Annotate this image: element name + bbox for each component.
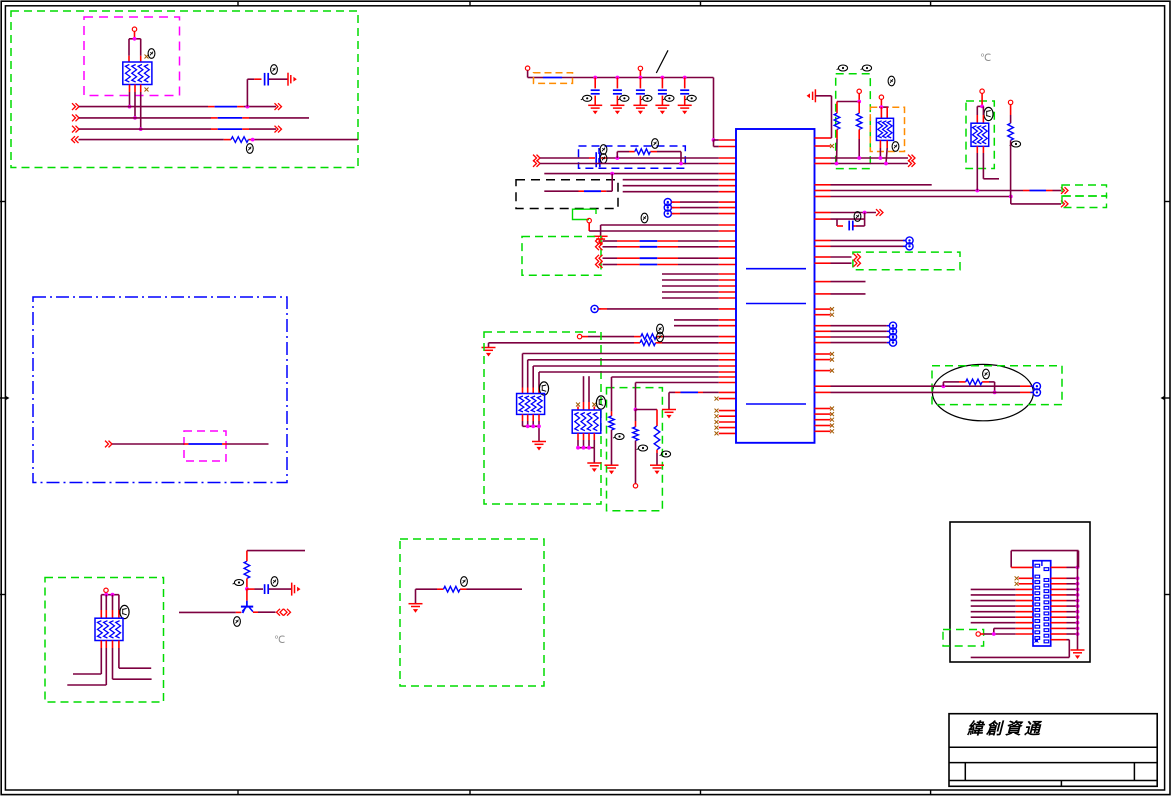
capacitor C3	[591, 78, 600, 106]
port chevron row163	[533, 160, 540, 167]
green dashed box bottom-left	[45, 578, 164, 703]
frame arrow left mid	[0, 396, 10, 400]
resistor R13	[966, 379, 982, 385]
wire row 281.6 right	[815, 281, 866, 283]
port chevron wire3 left	[72, 126, 79, 133]
junction dot RP5 b	[111, 593, 115, 597]
nc pin J1 row3	[1015, 582, 1033, 586]
wire row 240.5 right	[815, 240, 906, 242]
terminal circle row231	[587, 218, 591, 222]
ground row392	[662, 410, 676, 419]
junction dot RP4	[880, 105, 884, 109]
port chevron wire1 left	[72, 103, 79, 110]
junction dot tee	[857, 100, 861, 104]
nc pin right 354	[815, 352, 835, 356]
wire node to Q1	[246, 589, 248, 601]
junction dot bus cap 3	[639, 76, 643, 80]
wire row 179.7	[623, 179, 736, 181]
power symbol right C1	[288, 73, 297, 86]
resistor R4 parallel	[617, 152, 681, 164]
junction dot bus cap 4	[661, 76, 665, 80]
wire R9 mid	[635, 410, 637, 427]
wire J1 bottom row	[971, 640, 1070, 658]
resistor pack RP1	[123, 62, 152, 85]
frame tick top 470	[469, 1, 471, 6]
power symbol right C2	[292, 583, 301, 596]
wire R7 ground	[611, 430, 613, 465]
label C5	[641, 95, 652, 101]
wire row 190.5 right	[815, 190, 1062, 192]
wire black box net	[544, 174, 612, 192]
resistor R5	[641, 334, 657, 340]
frame tick right upper	[1165, 201, 1170, 203]
wire row 274	[662, 273, 736, 275]
port chevron wire4 left	[72, 136, 79, 143]
green dashed box B6	[932, 366, 1062, 405]
green dashed box out2	[1062, 196, 1107, 208]
green dashed box right net	[836, 74, 871, 169]
nc pin left 416.2	[715, 414, 737, 418]
label RP5	[120, 605, 129, 618]
wire row 225	[601, 225, 736, 236]
wire circle to bus	[589, 223, 600, 231]
frame tick top 238	[237, 1, 239, 6]
green dashed box B5	[400, 539, 544, 686]
nc pin J1 row2	[1015, 576, 1033, 580]
terminal circle RP4	[879, 95, 883, 99]
label C8a	[600, 145, 607, 155]
nc pin right 408.5	[815, 407, 835, 411]
resistor R3 B5	[444, 586, 461, 592]
wire RP1 bottom leg a	[129, 85, 131, 107]
label C6	[663, 95, 674, 101]
resistor pack RP6	[971, 123, 989, 146]
ground B5	[409, 604, 423, 613]
ground C5	[633, 105, 647, 114]
label C1	[271, 65, 278, 75]
junction dot leg b	[133, 116, 137, 120]
wire circle stub	[639, 71, 641, 78]
wire bundle row 382.5	[636, 383, 737, 410]
nc pin right 309	[815, 307, 835, 311]
resistor R1 wire4	[231, 137, 248, 143]
label R7	[613, 434, 624, 440]
wire RP5 top tee	[101, 594, 119, 596]
wire RP1 bottom leg b	[134, 85, 136, 118]
ground C6	[655, 105, 669, 114]
wire row 241	[603, 240, 737, 242]
wire row 263.2 right	[815, 260, 861, 267]
terminal circle R10R11	[857, 89, 861, 93]
nc pin right 419.7	[815, 418, 835, 422]
wire RP6 out leg2	[983, 146, 999, 179]
terminal circle RP6	[980, 89, 984, 93]
label R8	[660, 451, 671, 457]
wire row 343 ground	[489, 343, 737, 348]
label C7	[685, 95, 696, 101]
temperature gray text 2	[980, 53, 991, 64]
terminal circle RP1 top	[132, 27, 136, 31]
pin1 mark J1	[1034, 639, 1038, 643]
wire row 138	[815, 96, 832, 138]
junction dot wire4	[251, 138, 255, 142]
wire row 196 jog	[1011, 197, 1061, 204]
port chevron row 246.8	[596, 243, 603, 250]
nc pin left 398.6	[715, 397, 737, 401]
label Q1	[234, 617, 241, 627]
wire row 185.7	[623, 185, 736, 187]
wire Q1 emitter out	[253, 611, 276, 613]
wire RP5 out leg1	[73, 641, 101, 675]
wire J1 left row 589.4	[971, 588, 1033, 590]
junction dot RP1 tee	[133, 37, 137, 41]
junction dot RP5 a	[104, 593, 108, 597]
junction dots row163 right	[835, 162, 888, 166]
label R9	[637, 445, 648, 451]
wire socket row 325.7 right	[815, 322, 897, 329]
nc pin right 414.1	[815, 412, 835, 416]
wire J1 right bus	[1078, 551, 1079, 650]
ground C3	[588, 105, 602, 114]
label row 213 net	[641, 213, 648, 223]
frame tick left lower	[0, 594, 5, 596]
resistor R10	[834, 102, 840, 164]
wire RP1 top leg b	[140, 39, 142, 62]
socket pin row 202.1	[664, 199, 736, 206]
socket row 240.5	[903, 237, 913, 244]
label RP2	[539, 382, 548, 395]
label R13	[983, 369, 990, 379]
socket pin row 207.6	[664, 204, 736, 211]
nc pin left 433.4	[715, 431, 737, 435]
magenta dashed box RP1	[84, 17, 180, 96]
port chevron mid-left wire	[105, 441, 112, 448]
diagonal annotation line	[656, 50, 668, 73]
wire row 158 right	[815, 155, 916, 162]
label RP6	[984, 107, 993, 120]
label R2	[233, 580, 244, 586]
black dashed box	[516, 180, 618, 209]
junction dot R13	[993, 391, 997, 395]
nc pin right 425.5	[815, 424, 835, 428]
junction dot J1	[992, 632, 996, 636]
label C4	[618, 95, 629, 101]
socket pin row 309	[591, 305, 736, 312]
wire R10 R11 tee	[837, 94, 859, 102]
title text company name	[966, 720, 1043, 738]
port chevrons Q1 out	[277, 609, 291, 616]
wire RP5 out leg3	[113, 641, 152, 680]
wires J1 right rows	[1051, 566, 1080, 636]
junction dots RP3	[576, 446, 591, 450]
resistor R2 collector	[244, 561, 250, 578]
wire RP5 top leg4	[118, 595, 120, 619]
ground R8	[650, 465, 664, 474]
label RP4	[892, 142, 899, 152]
wire R12 bottom	[1010, 140, 1012, 196]
wire mid-left	[112, 443, 269, 445]
ground R7	[605, 465, 619, 474]
svg-text:℃: ℃	[274, 635, 285, 646]
wire row 320	[674, 319, 736, 321]
socket row 392	[1030, 389, 1040, 396]
wire row 258.2	[603, 257, 737, 259]
label C2	[271, 577, 278, 587]
frame tick right lower	[1165, 594, 1170, 596]
wire RP6 out leg1	[976, 146, 978, 190]
IC U1 body	[736, 129, 815, 443]
label C8b	[600, 154, 607, 164]
wire row 196.5 right	[815, 196, 1011, 198]
resistor R8 B3	[654, 426, 660, 465]
wire RP6 tee	[977, 93, 983, 106]
resistor pack RP2	[517, 394, 545, 415]
connector J1 body	[1033, 561, 1051, 646]
connector J1 pin notches	[1035, 564, 1049, 643]
black box connector	[950, 522, 1090, 662]
ground RP2	[532, 442, 546, 451]
wire R12 top	[1010, 105, 1012, 124]
label C9	[854, 212, 861, 222]
wire bundle row 353.5	[523, 354, 737, 394]
wire J1 left row 622.7	[971, 622, 1033, 624]
wire row 219.1 right	[815, 213, 865, 227]
label R3	[461, 577, 468, 587]
capacitor C7	[680, 78, 689, 106]
junction dot bus cap 5	[683, 76, 687, 80]
svg-text:緯創資通: 緯創資通	[966, 720, 1043, 738]
green dashed box B3	[607, 388, 663, 511]
green dashed box B2	[484, 332, 601, 504]
wire Q1 base	[179, 611, 241, 613]
wire row 298	[662, 297, 736, 299]
x marks RP3	[576, 403, 596, 407]
frame tick bottom 470	[469, 790, 471, 795]
wire row 392.4 right	[815, 391, 1034, 393]
wire 4 top-left	[79, 139, 359, 141]
green dashed box RP6	[966, 101, 994, 169]
port chevron row190	[1061, 187, 1068, 194]
capacitor C2	[265, 584, 269, 594]
green dashed box J1 in	[943, 630, 984, 647]
wire RP1 top leg a	[128, 39, 130, 62]
port chevron row158	[533, 155, 540, 162]
port chevron row 258.2	[596, 255, 603, 262]
wire row 386.2 right	[815, 385, 1034, 387]
labels R10 R11	[837, 65, 872, 71]
x mark RP1 pin bottom	[145, 88, 149, 92]
nc pin left 410.6	[715, 409, 737, 413]
wire RP4 out legs	[880, 140, 887, 163]
power symbol left r138	[807, 89, 816, 102]
wire row 246.8	[603, 246, 737, 248]
wire bundle row 359.8	[528, 360, 736, 394]
socket row 246.3	[903, 243, 913, 250]
capacitor C9 branch	[837, 219, 865, 226]
nc pin right 371	[815, 369, 835, 373]
frame arrow right mid	[1161, 396, 1171, 400]
wire row 257 right	[815, 254, 861, 261]
resistor R11	[856, 102, 862, 159]
wire R8 branch	[636, 410, 658, 427]
frame tick bottom 238	[237, 790, 239, 795]
wire RP1 bottom leg c	[140, 85, 142, 130]
frame tick bottom 930.6	[930, 790, 932, 795]
wire row 246.3 right	[815, 245, 906, 247]
resistor R6	[640, 340, 656, 346]
ground J1 bus	[1071, 650, 1085, 659]
capacitor C4	[613, 78, 622, 106]
wire J1 left row 600.6	[971, 600, 1033, 602]
capacitor C5	[636, 78, 645, 106]
wire RP5 top leg3	[112, 595, 114, 619]
transistor Q1	[241, 601, 253, 614]
wire bundle row 372	[539, 372, 736, 394]
temperature gray text	[274, 635, 285, 646]
junction dot row158	[615, 156, 619, 160]
wire row 146.5	[714, 140, 737, 147]
ground row343	[482, 348, 496, 357]
wire RP5 out leg4	[119, 641, 151, 669]
wire Q1 collector top	[247, 551, 305, 562]
wire row 231	[601, 230, 736, 232]
junction dot row140	[712, 138, 716, 142]
junction dot row212	[863, 211, 867, 215]
junction dots RP2	[526, 424, 541, 428]
wire row 163.5 right	[815, 160, 916, 167]
title block	[949, 714, 1157, 787]
junction dot leg a	[128, 105, 132, 109]
wire 2 top-left	[79, 117, 309, 119]
magenta dashed box mid-left	[184, 431, 226, 461]
wire 3 top-left	[79, 128, 276, 130]
label R4	[652, 139, 659, 149]
junction dot row190	[975, 189, 979, 193]
junction dot leg c	[139, 127, 143, 131]
nc pin right 146	[815, 144, 835, 148]
capacitor C2 branch	[247, 588, 292, 590]
nc pin left 422	[715, 420, 737, 424]
capacitor C9	[849, 221, 853, 231]
IC U1 section line 3	[746, 403, 806, 405]
junction dot row386	[942, 384, 946, 388]
wire RP3 top legs	[578, 376, 594, 410]
wire row 191.7	[623, 191, 736, 193]
wire row 163.5	[540, 163, 736, 165]
junction dot bus cap 1	[593, 76, 597, 80]
wire 1 top-left	[79, 106, 276, 108]
wire cap C1 branch	[247, 79, 288, 106]
port chevron wire2 left	[72, 115, 79, 122]
wire RP4 top legs	[881, 107, 887, 118]
green dashed box B4	[853, 252, 960, 270]
frame tick top 700.5	[700, 1, 702, 6]
junction dot RP6	[980, 105, 984, 109]
wire row 280	[662, 279, 736, 281]
junction dot wire1	[246, 105, 250, 109]
wire RP5 out leg2	[67, 641, 106, 686]
ground RP3	[587, 463, 601, 472]
frame tick bottom 700.5	[700, 790, 702, 795]
resistor pack RP3	[572, 410, 601, 433]
terminal circle bus left	[525, 66, 529, 70]
orange dashed box RP4	[870, 107, 904, 151]
terminal circle RP5 top	[104, 588, 108, 592]
socket row 386	[1030, 383, 1040, 390]
resistor R7 B3	[609, 416, 615, 430]
wire row 392 ground net	[669, 392, 736, 409]
wire row 292	[662, 291, 736, 293]
IC U1 section line 1	[746, 268, 806, 270]
resistor R13 branch	[943, 382, 994, 393]
resistor R4 zigzag	[635, 149, 651, 155]
nc pin left 427.6	[715, 426, 737, 430]
x mark RP1 pin top	[145, 55, 149, 59]
svg-text:℃: ℃	[980, 53, 991, 64]
green dashed box out1	[1062, 185, 1107, 196]
wire socket row 337 right	[815, 333, 897, 340]
wire row 286	[662, 285, 736, 287]
wire row 212.5 right	[815, 209, 884, 216]
wire row 293.9 right	[815, 293, 866, 295]
junction dot row163	[679, 162, 683, 166]
wire socket row 331.3 right	[815, 328, 897, 335]
green dashed box B1	[522, 237, 601, 276]
ground C4	[610, 105, 624, 114]
label R1	[246, 144, 253, 154]
wire J1 left row 611.7	[971, 611, 1033, 613]
IC U1 section line 2	[746, 303, 806, 305]
port chevron wire3 right	[275, 126, 282, 133]
wire J1 left row 594.9	[971, 594, 1033, 596]
port chevron row204	[1061, 201, 1068, 208]
capacitor C1	[265, 73, 269, 86]
junction dot bus cap 2	[616, 76, 620, 80]
label RP3	[596, 396, 605, 409]
wire RP1 top tee	[129, 31, 141, 38]
wire RP4 tee	[879, 99, 889, 107]
junction dot row174	[610, 172, 614, 176]
frame tick left upper	[0, 201, 5, 203]
wire row 140	[714, 139, 737, 141]
junction dots row158 right	[857, 156, 882, 160]
label RP4 top	[888, 76, 895, 86]
wire top bus	[528, 70, 714, 140]
resistor R9 B3	[633, 427, 639, 484]
wire row 158	[540, 157, 736, 159]
socket pin row 213.6	[664, 210, 736, 217]
ellipse annotation	[932, 364, 1033, 420]
wire socket row 342.6 right	[815, 339, 897, 346]
nc pin right 431.3	[815, 429, 835, 433]
ground C7	[678, 105, 692, 114]
nc pin right 360	[815, 358, 835, 362]
frame tick top 930.6	[930, 1, 932, 6]
wire RP5 top leg2	[105, 595, 107, 619]
wire bundle row 377	[612, 377, 737, 416]
labels R5 R6	[657, 324, 664, 342]
junction dot Q1 node	[245, 587, 249, 591]
wire J1 loop	[1011, 551, 1078, 568]
blue dash-dot box mid-left	[33, 297, 287, 483]
label RP1	[148, 49, 155, 59]
port chevron row 241	[596, 238, 603, 245]
resistor pack RP5	[95, 618, 123, 640]
resistor R12	[1008, 123, 1014, 140]
port chevron wire1 right	[275, 103, 282, 110]
wire row 326	[674, 325, 736, 327]
wire RP5 top leg1	[100, 595, 102, 619]
